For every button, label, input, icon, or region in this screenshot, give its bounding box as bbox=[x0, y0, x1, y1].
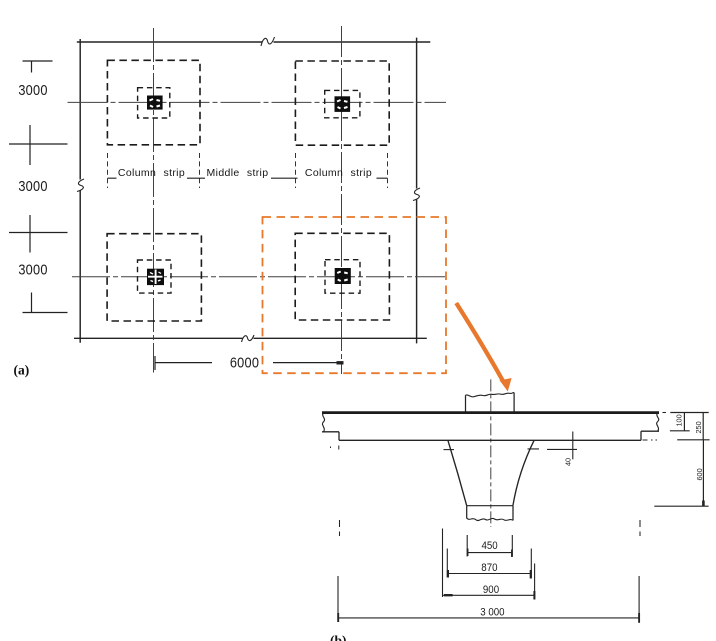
dash-dot continuation right of drop step bbox=[643, 439, 658, 441]
column (solid) upper-left bbox=[147, 96, 163, 110]
break squiggle on right edge bbox=[413, 188, 420, 201]
column head dashed square upper-right bbox=[325, 90, 360, 117]
450 dimension line bbox=[467, 552, 512, 554]
slab bottom edge line bbox=[74, 337, 427, 339]
dash-dot right of slab break bbox=[663, 412, 667, 414]
svg-text:900: 900 bbox=[483, 585, 499, 597]
column (solid) lower-right bbox=[335, 268, 351, 284]
svg-text:3000: 3000 bbox=[18, 260, 47, 277]
strip label baseline segments bbox=[108, 177, 388, 179]
40-level dashed line to right taper bbox=[528, 448, 578, 451]
column head bottom line bbox=[467, 505, 513, 507]
3000 end ticks bbox=[338, 613, 639, 623]
450 dim extension lines bbox=[467, 535, 512, 557]
row centreline horizontal gridline 1 bbox=[68, 101, 447, 103]
svg-text:3 000: 3 000 bbox=[480, 607, 505, 619]
svg-text:Column strip: Column strip bbox=[118, 167, 185, 179]
svg-text:6000: 6000 bbox=[230, 353, 259, 370]
slab top line (thick) bbox=[322, 411, 659, 414]
break squiggle on left edge bbox=[77, 179, 84, 192]
100 dimension vertical bbox=[683, 413, 685, 431]
orange callout arrow bbox=[456, 303, 511, 392]
slab top edge line bbox=[77, 41, 431, 43]
450 end ticks bbox=[468, 549, 512, 558]
column head right taper bbox=[513, 440, 534, 505]
column (solid) lower-left bbox=[147, 269, 164, 285]
slab soffit left of drop bbox=[322, 431, 339, 433]
break squiggle on bottom edge bbox=[242, 335, 255, 342]
svg-text:870: 870 bbox=[481, 562, 497, 574]
600 bottom tick line bbox=[654, 505, 708, 507]
column head dashed square lower-right bbox=[325, 260, 360, 294]
drop panel dashed square upper-right bbox=[295, 61, 389, 145]
900 dimension line bbox=[443, 594, 535, 596]
column stub above slab: sides bbox=[466, 393, 515, 413]
section column centreline bbox=[490, 379, 492, 527]
drop soffit line bbox=[339, 439, 641, 441]
strip boundary dashed tick 2 bbox=[199, 153, 201, 188]
slab left edge line bbox=[79, 39, 81, 343]
drop edge dashes above 3000 extensions bbox=[340, 520, 641, 536]
svg-text:100: 100 bbox=[675, 414, 684, 426]
3000 dim extension lines bbox=[338, 576, 639, 623]
column head dashed square lower-left bbox=[138, 260, 172, 293]
strip boundary dashed tick 1 bbox=[107, 153, 109, 188]
40 dimension vertical line bbox=[572, 432, 574, 460]
left dimension cross 2 bbox=[9, 215, 68, 253]
row centreline horizontal gridline 2 bbox=[72, 276, 445, 278]
870 end ticks bbox=[448, 570, 531, 579]
870 dim extension lines bbox=[447, 549, 531, 578]
900 end ticks bbox=[444, 594, 453, 596]
svg-text:40: 40 bbox=[564, 458, 573, 466]
slab right broken end squiggle bbox=[657, 413, 659, 432]
250 bottom tick bbox=[677, 439, 709, 441]
strip boundary dashed tick 4 bbox=[387, 153, 389, 188]
column centreline vertical gridline 1 bbox=[153, 28, 155, 373]
top extension tick line (slab top level) bbox=[670, 412, 708, 414]
slab soffit right of drop bbox=[641, 430, 659, 432]
break squiggle on top edge bbox=[261, 37, 275, 46]
870 dimension line bbox=[447, 573, 531, 575]
orange highlight dashed box bbox=[263, 217, 447, 373]
lower column sides bbox=[467, 506, 513, 521]
dash below left drop step bbox=[331, 446, 339, 450]
slab right edge line bbox=[416, 38, 418, 344]
left dimension cross 1 bbox=[9, 125, 68, 165]
3000 dimension line bbox=[338, 617, 639, 619]
column head dashed square upper-left bbox=[138, 88, 170, 118]
strip boundary dashed tick 3 bbox=[295, 153, 297, 188]
drop panel dashed square upper-left bbox=[107, 60, 200, 145]
column stub broken top wavy line bbox=[466, 393, 515, 397]
svg-text:(a): (a) bbox=[14, 363, 30, 378]
column (solid) upper-right bbox=[335, 96, 351, 112]
svg-text:250: 250 bbox=[694, 421, 703, 433]
100 bottom tick bbox=[670, 430, 690, 432]
900 dim extension lines bbox=[443, 529, 535, 600]
600 end tick blob bbox=[702, 501, 705, 507]
left dimension tick top bbox=[23, 61, 53, 73]
drop panel dashed square lower-right bbox=[295, 233, 389, 320]
svg-text:Middle strip: Middle strip bbox=[207, 167, 269, 179]
svg-text:3000: 3000 bbox=[18, 177, 47, 194]
svg-text:600: 600 bbox=[695, 468, 704, 480]
lower column broken wavy line bbox=[467, 518, 513, 521]
svg-text:Column strip: Column strip bbox=[305, 167, 372, 179]
slab left broken end squiggle bbox=[322, 413, 324, 432]
column head left taper bbox=[448, 440, 467, 505]
drop step right bbox=[640, 431, 642, 440]
drop step left bbox=[338, 432, 340, 441]
column centreline vertical gridline 2 bbox=[341, 26, 343, 374]
svg-text:(b): (b) bbox=[330, 633, 347, 641]
svg-text:3000: 3000 bbox=[18, 81, 47, 98]
600 dimension vertical bbox=[702, 440, 704, 506]
40-level tick across left taper bbox=[444, 449, 455, 451]
svg-text:450: 450 bbox=[481, 540, 497, 552]
250 dimension vertical bbox=[702, 413, 704, 440]
6000 dimension line bbox=[155, 356, 344, 370]
left dimension tick bottom bbox=[23, 293, 68, 313]
drop panel dashed square lower-left bbox=[107, 234, 201, 321]
